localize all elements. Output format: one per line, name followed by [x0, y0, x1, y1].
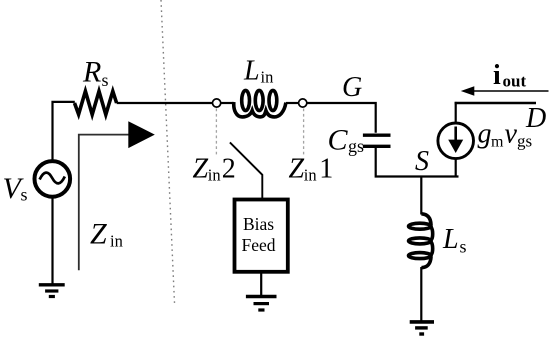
- wire Vs to ground: [51, 197, 53, 285]
- svg-text:D: D: [525, 103, 546, 134]
- svg-text:Bias: Bias: [243, 214, 274, 234]
- wire box to ground: [260, 272, 262, 296]
- node circle Zin2: [213, 99, 221, 107]
- wire node Zin1 to gate corner: [307, 103, 376, 133]
- svg-text:Z: Z: [90, 218, 107, 251]
- current source gm vgs: [438, 123, 474, 159]
- dotted separator line: [161, 0, 175, 303]
- svg-text:1: 1: [319, 154, 333, 185]
- node circle Zin1: [299, 99, 307, 107]
- wire cap to S wire: [376, 148, 459, 177]
- wire source bottom: [455, 159, 457, 178]
- svg-text:i: i: [493, 60, 501, 91]
- svg-text:s: s: [21, 185, 28, 205]
- svg-text:in: in: [208, 166, 221, 185]
- inductor Lin: [234, 90, 286, 117]
- ground (bias): [246, 297, 277, 311]
- svg-text:v: v: [505, 119, 518, 150]
- inductor Ls: [409, 214, 433, 268]
- svg-text:in: in: [110, 232, 123, 251]
- svg-text:gs: gs: [348, 136, 364, 156]
- svg-text:Feed: Feed: [242, 235, 276, 255]
- switch diagonal to bias feed: [230, 142, 262, 198]
- svg-text:out: out: [503, 72, 527, 91]
- resistor Rs: [75, 91, 117, 114]
- Zin arrow: [79, 135, 129, 271]
- svg-text:G: G: [342, 72, 362, 103]
- svg-text:gs: gs: [517, 132, 532, 151]
- wire coil to node Zin1: [286, 102, 299, 104]
- wire resistor to node Zin2: [117, 102, 213, 104]
- voltage source Vs: [35, 161, 71, 197]
- dashed drop Zin1: [303, 109, 305, 155]
- wire D: [455, 102, 536, 105]
- svg-text:L: L: [442, 224, 459, 255]
- svg-text:in: in: [261, 68, 274, 87]
- svg-text:S: S: [415, 146, 429, 177]
- svg-text:R: R: [82, 56, 101, 89]
- svg-text:Z: Z: [289, 154, 305, 185]
- wire Ls to ground: [420, 267, 422, 322]
- ground (Ls): [410, 322, 434, 334]
- dashed drop Zin2: [215, 109, 217, 155]
- wire source to D wire: [455, 102, 457, 123]
- svg-text:C: C: [328, 124, 349, 157]
- svg-text:g: g: [478, 119, 492, 150]
- capacitor Cgs: [363, 135, 391, 146]
- svg-text:2: 2: [222, 154, 236, 185]
- svg-text:s: s: [102, 70, 109, 90]
- svg-text:Z: Z: [193, 154, 209, 185]
- iout arrow: [473, 90, 549, 92]
- svg-text:in: in: [304, 166, 317, 185]
- bias feed box: [235, 200, 288, 272]
- wire top-left from Vs corner to resistor: [53, 102, 75, 161]
- ground (Vs): [39, 285, 65, 297]
- svg-text:L: L: [243, 55, 260, 86]
- svg-text:m: m: [491, 134, 504, 151]
- wire node to coil: [221, 102, 234, 104]
- wire S down to Ls: [420, 177, 422, 215]
- svg-text:s: s: [460, 237, 467, 257]
